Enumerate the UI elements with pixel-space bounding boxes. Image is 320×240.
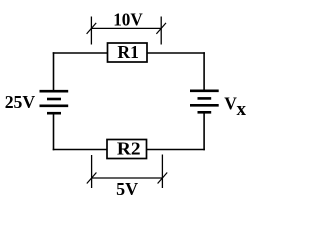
svg-text:5V: 5V <box>116 179 138 199</box>
svg-text:10V: 10V <box>113 9 143 29</box>
voltage annotation 10V dimension right extension line <box>160 17 162 45</box>
svg-text:R1: R1 <box>117 42 138 62</box>
battery B2 (Vx source) <box>190 91 219 113</box>
label Vx <box>224 93 246 120</box>
wire top-left segment <box>53 52 108 54</box>
voltage annotation 10V left tick <box>87 23 97 34</box>
svg-text:25V: 25V <box>5 92 36 112</box>
voltage annotation 5V dimension left extension line <box>91 155 93 188</box>
wire bottom-right segment <box>147 149 205 151</box>
label 5V <box>116 179 138 199</box>
voltage annotation 10V dimension left extension line <box>90 17 92 45</box>
label 25V <box>5 92 36 112</box>
battery B1 (25V source) <box>40 91 69 113</box>
svg-text:V: V <box>224 93 237 113</box>
resistor R1 <box>108 42 148 62</box>
wire left upper <box>53 52 55 91</box>
wire bottom-left segment <box>53 149 107 151</box>
label 10V <box>113 9 143 29</box>
voltage annotation 10V dimension line <box>91 27 161 29</box>
wire right lower <box>203 112 205 150</box>
voltage annotation 5V right tick <box>158 173 168 184</box>
voltage annotation 5V dimension line <box>92 177 163 179</box>
svg-text:R2: R2 <box>117 138 141 158</box>
wire right upper <box>203 52 205 91</box>
voltage annotation 5V left tick <box>87 173 97 184</box>
voltage annotation 10V right tick <box>156 23 166 34</box>
wire top-right segment <box>147 52 205 54</box>
svg-text:x: x <box>237 99 247 120</box>
voltage annotation 5V dimension right extension line <box>161 155 163 189</box>
resistor R2 <box>107 138 147 158</box>
wire left lower <box>53 113 55 150</box>
